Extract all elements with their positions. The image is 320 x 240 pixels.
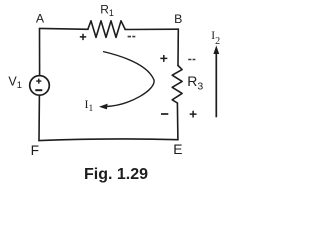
polarity - (R3 top right) — [188, 59, 195, 61]
svg-text:A: A — [36, 12, 45, 26]
polarity + (R3 top left) — [160, 55, 167, 62]
svg-text:R1: R1 — [100, 2, 114, 18]
resistor R3 — [172, 66, 182, 104]
polarity - (R3 bottom left) — [161, 113, 168, 115]
current arrow I1 — [99, 52, 154, 110]
wire left upper (V1 to A) — [39, 29, 41, 76]
wire top-left (A to R1) — [40, 27, 89, 30]
svg-text:B: B — [174, 12, 182, 26]
polarity + (R1 left) — [80, 34, 86, 40]
svg-text:R3: R3 — [187, 73, 203, 93]
polarity - (R1 right) — [128, 36, 136, 38]
wire bottom (E to F) — [39, 139, 178, 141]
resistor R1 — [88, 21, 125, 38]
svg-text:V1: V1 — [8, 75, 22, 92]
wire left lower (F to V1) — [38, 95, 40, 140]
polarity + (R3 bottom right) — [190, 111, 197, 118]
svg-text:F: F — [31, 143, 39, 158]
voltage source V1 — [30, 76, 50, 96]
wire right upper (B to R3) — [177, 29, 179, 65]
wire right lower (R3 to E) — [176, 103, 179, 140]
svg-text:I1: I1 — [85, 97, 94, 114]
current arrow I2 — [213, 45, 219, 117]
svg-text:I2: I2 — [211, 30, 220, 47]
svg-text:Fig. 1.29: Fig. 1.29 — [84, 166, 148, 183]
svg-text:E: E — [173, 142, 182, 157]
wire top-right (R1 to B) — [125, 28, 178, 30]
